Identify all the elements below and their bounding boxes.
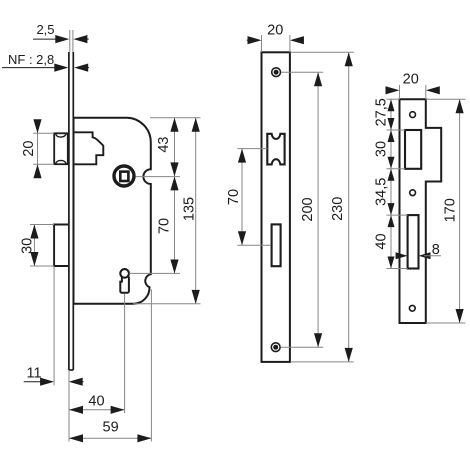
svg-text:43: 43 bbox=[156, 137, 172, 153]
dimension 20 latch height bbox=[21, 119, 54, 178]
svg-text:27,5: 27,5 bbox=[373, 98, 389, 126]
svg-text:230: 230 bbox=[330, 197, 346, 221]
svg-text:11: 11 bbox=[26, 365, 41, 381]
svg-text:30: 30 bbox=[373, 141, 389, 157]
dimension 135 case height bbox=[181, 118, 199, 304]
strike plate screw hole top bbox=[410, 112, 416, 118]
svg-text:40: 40 bbox=[88, 393, 104, 409]
svg-text:170: 170 bbox=[442, 198, 458, 222]
svg-text:30: 30 bbox=[19, 238, 35, 254]
strike plate screw hole bottom bbox=[409, 305, 415, 311]
svg-text:20: 20 bbox=[267, 23, 283, 39]
dimension NF : 2,8 faceplate thickness bbox=[2, 52, 89, 72]
latch bolt face (left of faceplate) bbox=[54, 133, 68, 164]
dimension 40 bolt opening height bbox=[373, 215, 394, 268]
dimension 27,5 top to latch opening bbox=[373, 98, 394, 130]
dimension 43 top to spindle axis bbox=[156, 118, 179, 177]
dimension 170 strike plate height bbox=[426, 99, 466, 323]
latch bolt head (right of faceplate) bbox=[74, 132, 104, 164]
svg-text:NF : 2,8: NF : 2,8 bbox=[8, 52, 54, 67]
dimension 230 faceplate height bbox=[291, 52, 354, 362]
svg-text:70: 70 bbox=[226, 189, 242, 205]
spindle hub with square follower bbox=[114, 166, 134, 186]
dimension 8 bolt opening width bbox=[396, 242, 441, 259]
dimension 200 screw hole spacing bbox=[281, 72, 324, 347]
key slot in faceplate bbox=[272, 224, 281, 266]
extension lines left of strike plate bbox=[387, 99, 408, 268]
svg-text:20: 20 bbox=[403, 71, 419, 87]
latch cutout in faceplate bbox=[267, 134, 284, 165]
svg-text:59: 59 bbox=[103, 419, 119, 435]
svg-text:40: 40 bbox=[373, 233, 389, 249]
svg-text:135: 135 bbox=[181, 197, 197, 221]
dimension 11 deadbolt face to plate bbox=[24, 267, 84, 386]
svg-text:200: 200 bbox=[300, 197, 316, 221]
dimension 20 strike plate width bbox=[386, 71, 440, 99]
svg-text:34,5: 34,5 bbox=[373, 178, 389, 206]
strike plate outline bbox=[400, 99, 442, 323]
dimension 59 plate to case back bbox=[69, 290, 151, 443]
lock case body outline bbox=[74, 118, 151, 304]
strike plate bolt opening bbox=[408, 215, 419, 268]
bottom screw hole (faceplate) bbox=[271, 343, 280, 352]
dimension 40 plate to keyhole axis bbox=[69, 294, 125, 414]
top screw hole (faceplate) bbox=[272, 68, 281, 77]
faceplate front view bbox=[262, 52, 290, 362]
svg-text:70: 70 bbox=[157, 218, 173, 234]
dimension 30 latch opening height bbox=[373, 130, 394, 169]
dimension 70 latch cutout to key slot bbox=[226, 149, 271, 246]
svg-text:20: 20 bbox=[21, 141, 37, 157]
dimension 30 deadbolt height bbox=[19, 225, 54, 267]
keyhole bbox=[120, 269, 129, 293]
dimension 20 faceplate width bbox=[247, 23, 304, 53]
dimension 70 spindle to keyhole bbox=[157, 176, 179, 273]
strike plate latch opening bbox=[405, 130, 421, 169]
strike plate screw hole middle bbox=[410, 190, 416, 196]
deadbolt (left of faceplate) bbox=[54, 225, 68, 267]
faceplate edge view (thin strip, left view) bbox=[69, 30, 73, 370]
extension lines right of lock case bbox=[129, 118, 200, 304]
dimension 2,5 faceplate thickness bbox=[33, 22, 89, 43]
dimension 34,5 latch to bolt opening bbox=[373, 169, 394, 215]
svg-text:2,5: 2,5 bbox=[36, 22, 54, 37]
